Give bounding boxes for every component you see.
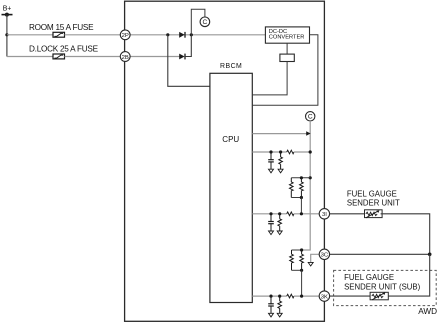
resistor R5 horizontal [287, 212, 294, 216]
wire sender unit right and down [381, 214, 430, 255]
RBCM module outer box [125, 1, 325, 321]
resistor pair cluster 1 top bar [291, 177, 310, 179]
cluster 1 bottom bar [291, 197, 301, 199]
svg-text:B+: B+ [3, 6, 12, 13]
wire R9 to 3K [294, 295, 319, 297]
wire cluster2 to 3K wire [301, 270, 303, 296]
capacitor C3 [268, 296, 274, 313]
svg-text:C: C [203, 19, 208, 26]
svg-text:FUEL GAUGE: FUEL GAUGE [347, 189, 397, 198]
connector (C) right [306, 112, 315, 121]
component box under DC-DC [280, 54, 294, 61]
junction B+ / ROOM fuse wire [5, 33, 8, 36]
fuel gauge sender unit (variable resistor) [365, 210, 383, 218]
connector (C) top [200, 17, 210, 27]
wire main vertical from connector C [302, 121, 311, 250]
wire diode D2 up to junction [185, 35, 191, 57]
svg-text:2B: 2B [122, 55, 129, 61]
junction y152 a [269, 150, 272, 153]
wire R5 to 3I [294, 213, 319, 215]
junction main y177.8 [309, 176, 312, 179]
svg-text:D.LOCK 25 A FUSE: D.LOCK 25 A FUSE [29, 44, 99, 53]
svg-text:SENDER UNIT: SENDER UNIT [347, 199, 400, 208]
wire 3K to sub sender [330, 295, 371, 297]
wire 2P to DC-DC converter [129, 34, 265, 36]
connector 2P [120, 30, 130, 40]
connector 3C [319, 249, 329, 259]
wire DC-DC right to CPU [252, 35, 318, 105]
svg-text:FUEL GAUGE: FUEL GAUGE [344, 273, 394, 282]
svg-text:C: C [308, 114, 313, 121]
ground arrow C3 [269, 313, 274, 317]
ground arrow C2 [269, 231, 274, 235]
resistor R10 vertical [278, 296, 282, 313]
capacitor C2 [268, 214, 274, 231]
svg-text:SENDER UNIT (SUB): SENDER UNIT (SUB) [344, 282, 421, 291]
svg-text:CONVERTER: CONVERTER [269, 35, 305, 41]
ground arrow R2 [278, 169, 283, 173]
wire R1 to vertical [294, 151, 310, 153]
fuse ROOM 15A [53, 32, 65, 37]
resistor R9 horizontal [287, 294, 294, 298]
arrow onto vertical wire [306, 131, 310, 136]
wire D.LOCK fuse right [65, 56, 122, 58]
junction y296.1 b [278, 295, 281, 298]
resistor R6 vertical [278, 214, 282, 231]
junction y296.1 c [300, 295, 303, 298]
CPU box [210, 73, 252, 302]
cluster 2 bottom bar [292, 269, 302, 271]
wire CPU output y=296.1 [252, 295, 286, 297]
junction diode outputs [190, 33, 193, 36]
wire 3I to sender unit [330, 213, 365, 215]
resistor R2 vertical [279, 152, 283, 169]
svg-text:CPU: CPU [222, 135, 239, 144]
wire CPU output y=152 [252, 151, 286, 153]
connector 3I [319, 209, 329, 219]
resistor pair cluster 2 top bar [292, 249, 302, 251]
wire CPU to arrow [252, 133, 307, 135]
wire B+ vertical [6, 15, 8, 57]
diode D1 (2P line) [179, 32, 185, 38]
junction battery branch [166, 33, 169, 36]
wire 3C right [330, 253, 430, 255]
DC-DC converter U1 [265, 27, 309, 43]
resistor R7 [290, 250, 294, 270]
wire cluster1 to 3I wire [300, 198, 302, 214]
resistor R4 [300, 178, 304, 198]
wire D.LOCK fuse left [7, 56, 53, 58]
resistor R8 [300, 250, 304, 270]
svg-text:2P: 2P [122, 33, 129, 39]
junction y152 b [279, 150, 282, 153]
resistor R1 horizontal [287, 150, 294, 154]
ground arrow R6 [277, 231, 282, 235]
wire component to CPU [252, 62, 287, 95]
svg-text:3I: 3I [322, 212, 327, 218]
wire 3C left [311, 254, 320, 262]
svg-text:RBCM: RBCM [220, 63, 242, 70]
wire 2B to diode [129, 56, 180, 58]
junction y213.8 a [269, 212, 272, 215]
fuse D.LOCK 25A [53, 54, 65, 59]
wire ROOM fuse right [65, 34, 122, 36]
junction y152 main [309, 150, 312, 153]
wire CPU output y=213.8 [252, 213, 286, 215]
ground arrow 3C [308, 262, 313, 266]
junction y213.8 b [278, 212, 281, 215]
fuel gauge sender unit sub (variable resistor) [370, 292, 388, 300]
svg-text:3C: 3C [321, 253, 329, 259]
svg-text:3K: 3K [321, 295, 328, 301]
connector 3K [319, 291, 329, 301]
svg-text:ROOM 15 A FUSE: ROOM 15 A FUSE [29, 23, 94, 32]
wire sub sender right and up [388, 254, 429, 296]
ground arrow C1 [269, 169, 274, 173]
wire battery branch to CPU [168, 35, 210, 87]
junction sender wires [428, 253, 432, 257]
dashed box AWD sub sender [334, 270, 437, 305]
wire hook to connector C top [191, 9, 205, 35]
junction y296.1 a [269, 295, 272, 298]
wire DC-DC bottom to component [286, 43, 288, 54]
junction y213.8 c [300, 212, 303, 215]
wire ROOM fuse left [7, 34, 53, 36]
ground arrow R10 [277, 313, 282, 317]
capacitor C1 [268, 152, 274, 169]
diode D2 (2B line) [179, 54, 185, 60]
svg-text:AWD: AWD [418, 307, 437, 316]
resistor R3 [290, 178, 294, 198]
connector 2B [120, 52, 130, 62]
node B+ [2, 6, 13, 17]
